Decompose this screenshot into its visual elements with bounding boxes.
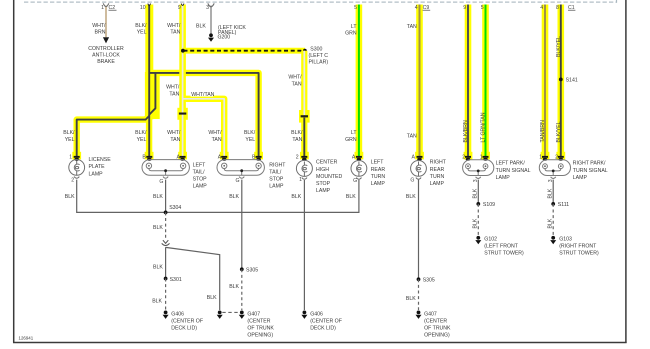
svg-text:STRUT TOWER): STRUT TOWER) <box>559 251 599 257</box>
svg-text:STRUT TOWER): STRUT TOWER) <box>484 251 524 257</box>
wire BLK connector to S301 <box>165 247 167 278</box>
svg-text:G406: G406 <box>310 311 323 317</box>
svg-text:S141: S141 <box>566 78 578 84</box>
svg-text:G102: G102 <box>484 237 497 243</box>
splice S304 <box>164 205 182 215</box>
svg-text:G407: G407 <box>424 311 437 317</box>
label: LEFT PARK/TURN SIGNAL LAMP <box>496 161 531 181</box>
connector boundary dashed line (C2/C9/C1 harness connector) <box>24 0 617 3</box>
lamp: left park/turn signal lamp <box>463 160 494 179</box>
left tail/stop lamp pin labels <box>142 154 180 185</box>
svg-text:STOP: STOP <box>193 176 208 182</box>
label WHT/TAN (above in-line connector) <box>288 75 302 88</box>
label BLK/YEL (license plate lamp feed) <box>63 130 75 143</box>
wire WHT/TAN / BLK/TAN to center high mounted stop lamp <box>299 51 310 160</box>
svg-text:WHT/: WHT/ <box>92 23 106 29</box>
svg-text:ANTI-LOCK: ANTI-LOCK <box>92 53 120 59</box>
svg-text:10: 10 <box>140 5 146 11</box>
svg-text:5: 5 <box>481 5 484 11</box>
svg-text:WHT/: WHT/ <box>208 130 222 136</box>
svg-text:1: 1 <box>101 5 104 11</box>
svg-text:(CENTER: (CENTER <box>247 318 270 324</box>
wire LT GRN/TAN pin 5 to left park/turn signal lamp <box>481 5 490 160</box>
svg-text:TAIL/: TAIL/ <box>269 169 282 175</box>
splice S305 (second symbol) <box>417 277 435 283</box>
lamp: right rear turn lamp <box>411 161 427 180</box>
wire BLK dashed S109 to G102 <box>472 204 478 235</box>
wire BLK dashed S305 to G407 <box>241 269 243 310</box>
svg-text:PILLAR): PILLAR) <box>309 59 329 65</box>
svg-text:A: A <box>177 154 181 160</box>
svg-text:WHT/: WHT/ <box>166 85 180 91</box>
svg-text:BLK/: BLK/ <box>244 130 256 136</box>
wire BLK/YEL pin 10 highlight <box>72 5 263 160</box>
svg-text:TAN: TAN <box>407 134 417 140</box>
svg-text:(LEFT FRONT: (LEFT FRONT <box>484 244 518 250</box>
svg-text:RIGHT: RIGHT <box>430 160 447 166</box>
svg-text:YEL: YEL <box>65 137 75 143</box>
svg-text:MOUNTED: MOUNTED <box>316 174 342 180</box>
svg-text:BRAKE: BRAKE <box>97 59 115 65</box>
wire WHT/TAN pin 9 core: to tail/stop lamps <box>178 4 224 156</box>
label WHT/TAN (on branch, boxed) <box>191 91 215 98</box>
svg-text:2: 2 <box>71 178 74 184</box>
svg-text:B: B <box>142 154 146 160</box>
svg-text:BLK: BLK <box>406 296 416 302</box>
splice S305 <box>240 267 258 273</box>
svg-text:WHT/: WHT/ <box>167 130 181 136</box>
label WHT/TAN (right tail lamp pin A) <box>208 130 222 143</box>
label: CENTER HIGH MOUNTED STOP LAMP <box>316 160 342 194</box>
svg-text:STOP: STOP <box>316 181 331 187</box>
svg-text:BRN: BRN <box>95 30 106 36</box>
wire BLK center high mounted stop lamp pin 1 to G406 <box>291 180 304 310</box>
svg-text:BLK: BLK <box>547 218 553 228</box>
svg-text:4: 4 <box>415 5 418 11</box>
svg-text:B: B <box>252 154 256 160</box>
svg-text:TAN: TAN <box>292 137 302 143</box>
svg-text:TAN: TAN <box>169 92 179 98</box>
svg-text:S300: S300 <box>310 46 322 52</box>
wire BLK right park/turn lamp pin 3 to S111 <box>547 180 553 204</box>
wire BLK dashed S305 to G407 (right) <box>418 279 420 310</box>
wire WHT/TAN pin 9 highlight <box>177 5 228 160</box>
label WHT/TAN (left tail lamp pin A) <box>167 130 181 143</box>
svg-text:5: 5 <box>354 5 357 11</box>
svg-text:(CENTER OF: (CENTER OF <box>171 318 203 324</box>
label BLK/YEL (pin 10) <box>135 23 147 36</box>
svg-text:A: A <box>352 155 356 161</box>
svg-text:BLK: BLK <box>152 298 162 304</box>
label LT GRN (lamp end) <box>345 130 357 143</box>
svg-text:BLK: BLK <box>472 218 478 228</box>
svg-text:BLK: BLK <box>65 194 75 200</box>
svg-text:G: G <box>410 178 414 184</box>
svg-text:BLK: BLK <box>547 188 553 198</box>
svg-text:GRN: GRN <box>345 137 357 143</box>
wire BLK/YEL pin 10 core: to license plate lamp and tail/stop lamps <box>77 4 259 157</box>
svg-text:8: 8 <box>556 5 559 11</box>
svg-text:HIGH: HIGH <box>316 167 329 173</box>
in-line connector on WHT/TAN wire <box>179 113 186 115</box>
label: RIGHT REAR TURN LAMP <box>430 160 447 187</box>
license plate lamp pin labels <box>69 154 74 183</box>
svg-text:WHT/: WHT/ <box>167 23 181 29</box>
ground (center of trunk opening, left symbol) <box>217 311 239 319</box>
svg-text:S305: S305 <box>246 268 258 274</box>
svg-text:OPENING): OPENING) <box>247 332 273 338</box>
label: RIGHT TAIL/STOP LAMP <box>269 162 286 189</box>
svg-text:A: A <box>412 155 416 161</box>
svg-text:DECK LID): DECK LID) <box>171 325 197 331</box>
wire BLK/YEL pin 8 C1 to right park/turn signal lamp <box>556 5 575 160</box>
lamp: left rear turn lamp <box>351 161 367 180</box>
svg-text:BLK: BLK <box>346 194 356 200</box>
svg-text:LAMP: LAMP <box>371 181 386 187</box>
svg-text:4: 4 <box>540 5 543 11</box>
svg-text:LAMP: LAMP <box>269 184 284 190</box>
svg-text:LAMP: LAMP <box>496 175 511 181</box>
svg-text:REAR: REAR <box>371 167 386 173</box>
label: LICENSE PLATE LAMP <box>89 157 112 177</box>
lamp: center high mounted stop lamp <box>296 160 312 179</box>
svg-text:1: 1 <box>539 155 542 161</box>
svg-text:3: 3 <box>548 179 554 182</box>
svg-text:RIGHT: RIGHT <box>269 162 286 168</box>
svg-text:1: 1 <box>480 155 483 161</box>
svg-text:BLK/BRN: BLK/BRN <box>463 120 469 142</box>
svg-text:TURN SIGNAL: TURN SIGNAL <box>573 168 608 174</box>
wire BLK/BRN pin 9 to left park/turn signal lamp <box>463 5 472 160</box>
svg-text:3: 3 <box>206 5 209 11</box>
svg-text:S111: S111 <box>558 202 569 208</box>
svg-text:YEL: YEL <box>137 137 147 143</box>
svg-text:BLK: BLK <box>153 194 163 200</box>
svg-text:LAMP: LAMP <box>89 171 104 177</box>
svg-text:TAN: TAN <box>170 137 180 143</box>
splice S300 dashed link (left C pillar) <box>181 46 328 65</box>
label BLK/YEL (left tail/stop lamp feed) <box>135 130 147 143</box>
svg-text:OPENING): OPENING) <box>424 332 450 338</box>
svg-text:TURN: TURN <box>430 174 445 180</box>
svg-text:S109: S109 <box>483 202 495 208</box>
svg-text:TAN: TAN <box>407 24 417 30</box>
label WHT/BRN <box>92 23 106 36</box>
svg-text:G: G <box>353 178 357 184</box>
svg-text:CENTER: CENTER <box>316 160 338 166</box>
ground G406 (center of deck lid, second symbol) <box>301 311 342 332</box>
svg-text:9: 9 <box>178 5 181 11</box>
svg-text:BLK: BLK <box>207 295 217 301</box>
wire LT GRN pin 5 to left rear turn lamp <box>354 5 363 160</box>
wire BLK dashed below S304 <box>165 212 167 238</box>
svg-text:LEFT PARK/: LEFT PARK/ <box>496 161 526 167</box>
svg-text:BLK: BLK <box>229 284 239 290</box>
lamp: right tail/stop lamp <box>217 160 264 179</box>
right park/turn lamp pin labels <box>539 155 558 183</box>
wire BLK right rear turn lamp G to S305 <box>406 180 419 280</box>
svg-text:2: 2 <box>296 155 299 161</box>
splice S301 <box>164 277 182 283</box>
svg-text:WHT/: WHT/ <box>288 75 302 81</box>
svg-text:1: 1 <box>69 154 72 160</box>
ground G407 (center of trunk opening) <box>239 311 275 339</box>
svg-text:(RIGHT FRONT: (RIGHT FRONT <box>559 244 597 250</box>
svg-text:TURN SIGNAL: TURN SIGNAL <box>496 168 531 174</box>
svg-text:G: G <box>235 178 239 184</box>
svg-text:G103: G103 <box>559 237 572 243</box>
svg-text:G406: G406 <box>171 311 184 317</box>
svg-text:TAN/BRN: TAN/BRN <box>540 120 546 143</box>
wire BLK branch via in-line connector to trunk-opening ground <box>166 247 220 310</box>
svg-text:A: A <box>218 154 222 160</box>
splice S109 <box>476 202 495 208</box>
right rear turn lamp pin labels <box>410 155 415 184</box>
svg-text:OF TRUNK: OF TRUNK <box>247 325 274 331</box>
center stop lamp pin labels <box>296 155 302 184</box>
in-line connector (gray) <box>162 240 170 245</box>
svg-text:TAN: TAN <box>212 137 222 143</box>
svg-text:BLK: BLK <box>153 265 163 271</box>
svg-text:TAIL/: TAIL/ <box>193 169 206 175</box>
svg-text:BLK/: BLK/ <box>135 130 147 136</box>
wire TAN pin 4 C9 to right rear turn lamp <box>415 5 430 160</box>
label LT GRN (pin 5) <box>345 24 357 37</box>
ground G406 (center of deck lid) <box>163 311 203 332</box>
ground G102 (left front strut tower) <box>475 236 524 257</box>
svg-text:LT: LT <box>351 24 357 30</box>
ground G103 (right front strut tower) <box>550 236 599 257</box>
svg-text:BLK/YEL: BLK/YEL <box>556 121 562 142</box>
svg-text:S304: S304 <box>169 205 181 211</box>
svg-text:BLK/: BLK/ <box>291 130 303 136</box>
wire BLK right tail lamp G to S305 <box>241 180 243 270</box>
svg-text:BLK: BLK <box>196 24 206 30</box>
right tail/stop lamp pin labels <box>218 154 256 184</box>
label: RIGHT PARK/TURN SIGNAL LAMP <box>573 161 608 181</box>
wire TAN/BRN pin 4 to right park/turn signal lamp <box>540 5 549 160</box>
svg-text:RIGHT PARK/: RIGHT PARK/ <box>573 161 606 167</box>
label: LEFT REAR TURN LAMP <box>371 160 386 187</box>
svg-text:LAMP: LAMP <box>573 175 588 181</box>
svg-text:2: 2 <box>555 155 558 161</box>
svg-text:S301: S301 <box>170 277 182 283</box>
svg-text:BLK: BLK <box>406 194 416 200</box>
wire WHT/BRN pin 1 C2 to controller anti-lock brake <box>103 3 109 43</box>
svg-text:BLK/YEL: BLK/YEL <box>556 36 562 57</box>
svg-text:REAR: REAR <box>430 167 445 173</box>
svg-text:YEL: YEL <box>137 30 147 36</box>
svg-text:2: 2 <box>462 155 465 161</box>
lamp: left tail/stop lamp <box>142 160 189 179</box>
svg-text:DECK LID): DECK LID) <box>310 325 336 331</box>
left park/turn lamp pin labels <box>462 155 483 183</box>
svg-text:BLK: BLK <box>472 188 478 198</box>
svg-text:LAMP: LAMP <box>430 181 445 187</box>
wire BLK left tail lamp G to S304 <box>165 180 167 213</box>
label WHT/TAN (pin 9) <box>167 23 181 36</box>
svg-text:TAN: TAN <box>292 82 302 88</box>
svg-text:LT GRN/TAN: LT GRN/TAN <box>481 112 487 142</box>
label: LEFT TAIL/STOP LAMP <box>193 162 208 189</box>
svg-text:YEL: YEL <box>245 137 255 143</box>
splice S141 <box>559 78 578 84</box>
svg-text:S305: S305 <box>423 278 435 284</box>
ground G200 (left kick panel) <box>208 25 246 42</box>
svg-text:LAMP: LAMP <box>316 188 331 194</box>
wire BLK left park/turn lamp pin 3 to S109 <box>472 180 478 204</box>
svg-text:BLK: BLK <box>153 225 163 231</box>
svg-text:BLK/: BLK/ <box>135 23 147 29</box>
wire BLK pin 3 to ground G200 <box>196 3 214 33</box>
node: CONTROLLER ANTI-LOCK BRAKE <box>88 46 124 65</box>
label BLK/TAN (below in-line connector) <box>291 130 303 143</box>
svg-text:(CENTER: (CENTER <box>424 318 447 324</box>
lamp: right park/turn signal lamp <box>539 160 570 179</box>
svg-text:BLK/: BLK/ <box>63 130 75 136</box>
svg-text:STOP: STOP <box>269 176 284 182</box>
svg-text:LICENSE: LICENSE <box>89 157 112 163</box>
svg-text:9: 9 <box>463 5 466 11</box>
svg-text:G407: G407 <box>247 311 260 317</box>
svg-text:G: G <box>159 179 163 185</box>
svg-text:PLATE: PLATE <box>89 164 106 170</box>
svg-text:TAN: TAN <box>170 30 180 36</box>
svg-text:BLK: BLK <box>229 194 239 200</box>
left rear turn lamp pin labels <box>352 155 357 185</box>
svg-text:LEFT: LEFT <box>371 160 385 166</box>
svg-text:3: 3 <box>473 179 479 182</box>
wire BLK dashed S111 to G103 <box>547 204 553 235</box>
wire BLK dashed S301 to G406 <box>165 279 167 311</box>
pin 1 label and connector C2 <box>101 5 116 11</box>
svg-text:OF TRUNK: OF TRUNK <box>424 325 451 331</box>
svg-text:CONTROLLER: CONTROLLER <box>88 46 124 52</box>
lamp: license plate lamp <box>69 160 85 179</box>
svg-text:126941: 126941 <box>19 336 34 341</box>
svg-text:TURN: TURN <box>371 174 386 180</box>
svg-text:GRN: GRN <box>345 31 357 37</box>
svg-text:LAMP: LAMP <box>193 184 208 190</box>
terminal blobs at lamp pins (highlighted wires) <box>74 156 564 161</box>
svg-text:LEFT: LEFT <box>193 162 207 168</box>
svg-text:BLK: BLK <box>291 194 301 200</box>
splice S111 <box>551 202 569 208</box>
svg-text:1: 1 <box>299 177 302 183</box>
label BLK/YEL (right tail/stop lamp feed) <box>244 130 256 143</box>
wire BLK ground bus to splice S304 <box>77 180 359 213</box>
svg-text:G200: G200 <box>218 35 231 41</box>
svg-text:(LEFT C: (LEFT C <box>309 53 329 59</box>
label WHT/TAN (mid run) <box>166 85 180 98</box>
ground G407 (center of trunk opening, second symbol) <box>416 311 452 339</box>
svg-text:WHT/TAN: WHT/TAN <box>191 92 214 98</box>
svg-text:(CENTER OF: (CENTER OF <box>310 318 342 324</box>
svg-text:LT: LT <box>351 130 357 136</box>
